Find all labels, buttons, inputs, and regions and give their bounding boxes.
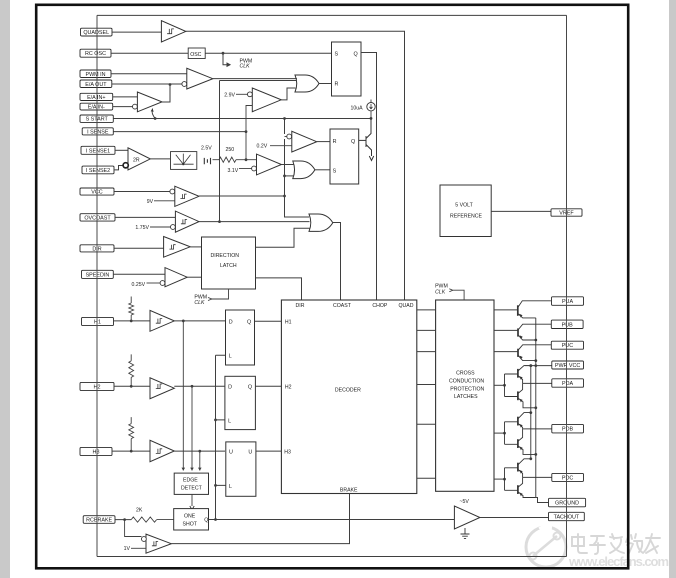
comparator U11 OVCOAST 1.75V schmitt: [135, 211, 309, 232]
wire G3 output to COAST column: [333, 223, 341, 301]
node 250 resistor: [245, 158, 248, 161]
svg-text:PWR VCC: PWR VCC: [555, 363, 581, 369]
pin PUC: [551, 341, 583, 349]
svg-text:www.elecfans.com: www.elecfans.com: [568, 554, 669, 569]
wire edge detect tap: [191, 386, 193, 470]
svg-text:LATCHES: LATCHES: [454, 394, 478, 400]
svg-text:RCBRAKE: RCBRAKE: [86, 518, 112, 524]
svg-text:REFERENCE: REFERENCE: [450, 213, 483, 219]
svg-text:E/A IN+: E/A IN+: [87, 95, 105, 101]
wire Q2 collector to PUB: [518, 324, 551, 330]
latch U14 DIRECTION LATCH: [202, 237, 256, 289]
wire QUADSEL to buffer: [112, 31, 161, 33]
wire PWM CLK tap with arrow: [223, 53, 230, 64]
wire 9V label to lower input: [154, 200, 175, 202]
svg-text:2R: 2R: [133, 158, 140, 164]
wire S START line: [113, 118, 371, 120]
buffer U21 hall input schmitt: [129, 417, 225, 471]
transistor Q7 chopper: [359, 118, 374, 160]
wire I SENSE line: [113, 131, 246, 133]
block U25 5 VOLT REFERENCE: [440, 185, 491, 237]
pin VCC: [80, 188, 114, 196]
svg-text:CLK: CLK: [435, 289, 446, 295]
watermark chinese text (vector strokes, chars drawn as shapes): [572, 534, 660, 554]
wire OSC box to latch S input: [205, 52, 331, 54]
pin I SENSE: [82, 128, 113, 136]
wire return rail to ground pin: [536, 498, 549, 503]
latch U7 current SR latch: [330, 129, 359, 184]
svg-text:I SENSE1: I SENSE1: [86, 148, 110, 154]
wire decoder to cross block rungs: [417, 310, 436, 478]
node one-shot line: [214, 518, 217, 521]
wire 3.1V label to bubble: [239, 168, 252, 170]
transistor Q2 PUB driver: [494, 324, 551, 341]
wire emitter return rail: [535, 318, 537, 498]
pin H2: [80, 382, 114, 390]
wire I SENSE branch down to 250 node: [246, 132, 257, 160]
wire U21 output to latch: [174, 450, 225, 452]
node L2: [214, 419, 217, 422]
wire edge detect tap: [182, 321, 184, 471]
svg-text:S: S: [335, 52, 339, 58]
svg-text:1.75V: 1.75V: [135, 225, 149, 231]
svg-text:ONE: ONE: [184, 514, 196, 520]
svg-text:E/A OUT: E/A OUT: [85, 82, 107, 88]
svg-text:Q: Q: [247, 320, 251, 326]
svg-text:QUAD: QUAD: [399, 303, 414, 309]
svg-text:SPEEDIN: SPEEDIN: [86, 272, 110, 278]
svg-text:PROTECTION: PROTECTION: [450, 386, 484, 392]
svg-text:CONDUCTION: CONDUCTION: [449, 379, 484, 385]
node return rail PWRVCC cross: [534, 364, 537, 367]
current source I1 10uA: [351, 100, 376, 119]
svg-text:PWM IN: PWM IN: [85, 72, 105, 78]
svg-text:~5V: ~5V: [460, 499, 470, 505]
pin RCBRAKE: [83, 516, 115, 524]
amplifier U8 current sense 2R: [123, 148, 150, 170]
wire direction latch out1 to G3: [256, 228, 310, 247]
svg-text:PUB: PUB: [562, 322, 573, 328]
wire right bus segment VREF to PUA: [566, 216, 568, 297]
buffer U19 hall input schmitt: [129, 297, 225, 471]
svg-text:3.1V: 3.1V: [228, 168, 239, 174]
pin DIR: [80, 245, 114, 253]
wire bottom rail: [97, 556, 567, 558]
wire Q6 output to PDC: [523, 476, 552, 478]
wire U16 Q to decoder: [255, 320, 282, 322]
op-amp U27 tach buffer: [454, 499, 548, 529]
comparator U24 1V brake schmitt: [124, 494, 350, 554]
wire U4 output elbow to G1: [281, 88, 295, 100]
pin VREF: [551, 209, 582, 217]
comparator U4 2.9V: [224, 88, 295, 132]
pin S START: [80, 115, 113, 123]
resistor pull-up: [129, 303, 134, 315]
svg-text:2.5V: 2.5V: [201, 146, 212, 152]
wire E/A IN- to error amp bubble: [113, 106, 133, 108]
svg-text:PUC: PUC: [562, 343, 573, 349]
wire 1.75V label to bubble: [150, 226, 171, 228]
svg-text:DIRECTION: DIRECTION: [211, 253, 240, 259]
svg-text:LATCH: LATCH: [220, 263, 237, 269]
wire S START branch down x=284.5: [285, 119, 310, 218]
pin I SENSE1: [81, 146, 115, 154]
wire OVCOAST to comparator: [115, 216, 175, 218]
svg-text:EDGE: EDGE: [183, 478, 198, 484]
pin PUB: [551, 320, 583, 328]
pin RC OSC: [80, 49, 111, 57]
wire Q1 emitter to return rail: [518, 314, 536, 318]
pin GROUND: [549, 498, 586, 507]
svg-text:D: D: [228, 385, 232, 391]
wire PWM IN to comparator: [111, 73, 187, 75]
wire U6 Q to CHOP column: [361, 53, 377, 301]
label PWM CLK into direction latch: [194, 289, 228, 306]
svg-text:0.25V: 0.25V: [132, 282, 146, 288]
wire U13 output to direction latch: [187, 276, 201, 278]
wire U12 output to direction latch: [190, 246, 201, 248]
latch U16 hall latch: [226, 310, 282, 365]
wire E/A IN+ to error amp: [113, 96, 138, 98]
wire edge detect tap: [199, 451, 201, 470]
svg-text:2K: 2K: [136, 508, 143, 514]
block U23 ONE SHOT: [174, 509, 209, 530]
or-gate G1 (3-input to R of U6): [295, 75, 319, 92]
op-amp U3 error amp: [133, 92, 163, 119]
svg-text:Q: Q: [204, 518, 208, 524]
wire Q3 emitter to return rail: [518, 355, 536, 360]
wire top rail: [97, 14, 567, 16]
wire U19 output to latch: [174, 320, 225, 322]
wire RCBRAKE branch to 1V comparator: [125, 520, 142, 537]
node OVCOAST to G1 branch: [218, 220, 221, 223]
svg-text:H1: H1: [94, 320, 101, 326]
wire RC OSC to OSC box: [111, 52, 188, 54]
resistor pull-up: [129, 361, 134, 377]
pin SPEEDIN: [82, 270, 114, 278]
wire edge detect to one shot: [191, 494, 193, 506]
svg-text:E/A IN-: E/A IN-: [88, 105, 105, 111]
svg-text:0.2V: 0.2V: [257, 144, 268, 150]
wire left pin bus: [96, 15, 98, 556]
svg-text:H3: H3: [93, 450, 100, 456]
wire soft-start clamp arrow: [152, 109, 155, 119]
ground symbol below op-amp: [461, 528, 470, 538]
node L3: [214, 484, 217, 487]
label PWM CLK (top): [240, 59, 253, 70]
svg-text:OSC: OSC: [190, 52, 201, 58]
or-gate G2 (to S of U7): [293, 161, 315, 179]
wire U18 Q to decoder: [256, 450, 282, 452]
wire left pin bus overdraw: [96, 15, 98, 556]
node Q2 emitter rail: [534, 339, 537, 342]
wire RCBRAKE to 2K resistor: [115, 519, 131, 521]
wire branch stub to G2 lower input: [285, 175, 295, 177]
wire latch enable chain: [216, 355, 226, 519]
node I SENSE branch: [245, 130, 248, 133]
svg-text:L: L: [229, 484, 232, 490]
svg-text:OVCOAST: OVCOAST: [84, 215, 111, 221]
wire Q3 collector to PUC: [518, 345, 551, 351]
block U22 EDGE DETECT: [174, 473, 208, 494]
svg-text:DIR: DIR: [296, 303, 305, 309]
buffer U1 QUADSEL schmitt: [161, 21, 185, 42]
svg-text:GROUND: GROUND: [555, 501, 579, 507]
wire direction latch out2 to DIR column: [256, 278, 302, 300]
svg-text:PDB: PDB: [562, 427, 573, 433]
wire 0.25V label to bubble: [147, 282, 161, 284]
pin H1: [82, 317, 114, 325]
resistor R4 250: [213, 147, 247, 162]
node E/A OUT junction: [169, 83, 172, 86]
svg-text:QUADSEL: QUADSEL: [83, 30, 109, 36]
wire U24 output to BRAKE input: [171, 494, 349, 544]
wire U5 output to R of U7: [317, 141, 330, 143]
pin I SENSE2: [82, 166, 114, 174]
svg-text:S: S: [333, 168, 337, 174]
transistor Q1 PUA driver: [494, 301, 551, 318]
transistor Q4 darlington pair PDA: [494, 364, 552, 408]
left gray scan strip: [0, 0, 10, 578]
wire right bus overdraw: [566, 15, 568, 556]
pin E/A OUT: [80, 80, 112, 88]
svg-text:Q: Q: [351, 139, 355, 145]
buffer U12 DIR schmitt: [164, 237, 202, 258]
svg-text:U: U: [248, 450, 252, 456]
comparator U13 SPEEDIN 0.25V: [132, 268, 202, 288]
svg-text:1V: 1V: [124, 546, 131, 552]
pin E/A IN+: [80, 93, 113, 101]
wire right bus segment PUC-PWRVCC: [566, 349, 568, 361]
node RC OSC tap: [222, 52, 225, 55]
wire U11 output to OR3: [199, 221, 310, 223]
svg-text:DECODER: DECODER: [335, 387, 361, 393]
wire E/A OUT to comparator bubble: [112, 83, 182, 85]
pin PDA: [552, 379, 584, 387]
svg-text:H1: H1: [285, 320, 292, 326]
pin PDC: [552, 473, 584, 481]
pin E/A IN-: [80, 103, 113, 110]
transistor Q6 darlington pair PDC: [494, 457, 552, 497]
svg-text:9V: 9V: [147, 199, 154, 205]
svg-text:DETECT: DETECT: [181, 486, 203, 492]
svg-text:R: R: [335, 82, 339, 88]
wire 0.2V label to lower input: [270, 145, 292, 147]
wire PWR VCC collector line: [525, 365, 552, 367]
wire right bus segment above VREF: [566, 15, 568, 209]
svg-text:PUA: PUA: [562, 299, 573, 305]
wire PWM CLK elbow into latch bottom: [212, 289, 229, 299]
svg-text:Q: Q: [354, 52, 358, 58]
node collector rail top: [529, 364, 532, 367]
wire Q5 output to PDB: [523, 428, 552, 430]
svg-text:H2: H2: [285, 385, 292, 391]
wire U27 output to TACHOUT: [480, 517, 549, 519]
wire SPEEDIN to comparator: [113, 273, 165, 275]
svg-text:CHOP: CHOP: [372, 303, 388, 309]
node return rail PDB: [534, 453, 537, 456]
svg-text:U: U: [229, 450, 233, 456]
wire U17 Q to decoder: [255, 385, 281, 387]
wire OVCOAST branch up to G1: [220, 81, 298, 222]
svg-text:10uA: 10uA: [351, 106, 364, 112]
node branch OR2 stub: [283, 175, 286, 178]
wire H2 to buffer: [114, 385, 150, 387]
wire Q2 emitter to return rail: [518, 335, 536, 340]
pin H3: [80, 447, 112, 455]
wire G1 output to R: [319, 83, 332, 85]
svg-text:250: 250: [226, 147, 235, 153]
node branch VCC line: [283, 195, 286, 198]
wire Q4 output to PDA: [523, 382, 552, 384]
wire right bus segment PDA-PDB: [566, 387, 568, 424]
label PWM CLK into cross block: [435, 284, 464, 300]
battery B1 2.5V: [201, 146, 212, 165]
wire one shot output to tach op-amp: [209, 519, 455, 521]
wire right bus segment PDC-GROUND: [566, 481, 568, 498]
wire PWM CLK elbow into cross block top: [453, 290, 464, 300]
wire sense amp output to multiplier: [150, 158, 170, 160]
wire I SENSE1 to sense amp: [115, 149, 128, 151]
svg-text:CROSS: CROSS: [456, 371, 475, 377]
svg-text:COAST: COAST: [333, 303, 352, 309]
wire right bus segment PUA-PUB: [566, 305, 568, 320]
svg-text:SHOT: SHOT: [183, 522, 198, 528]
node return rail PDA: [534, 406, 537, 409]
watermark logo circle: [526, 527, 566, 567]
buffer U20 hall input schmitt: [129, 354, 225, 470]
wire I SENSE to U4 lower input: [246, 106, 252, 132]
pin QUADSEL: [81, 28, 113, 36]
wire I SENSE2 to sense amp bubble: [114, 166, 123, 170]
wire right bus segment below TACHOUT: [566, 521, 568, 557]
wire H1 to buffer: [114, 320, 151, 322]
comparator U5 0.2V: [257, 131, 331, 152]
transistor Q3 PUC driver: [494, 345, 551, 362]
svg-text:I SENSE2: I SENSE2: [86, 168, 110, 174]
latch U18 hall latch: [226, 442, 282, 496]
wire 1V label to lower input: [131, 547, 146, 549]
wire DIR to buffer: [114, 247, 164, 249]
node S START / current source: [370, 117, 373, 120]
wire PWM comparator out to G1: [213, 78, 297, 80]
svg-text:CLK: CLK: [240, 64, 251, 70]
node branch top: [283, 117, 286, 120]
or-gate G3 coast: [309, 214, 333, 231]
wire error amp output to E/A OUT: [162, 85, 170, 103]
svg-text:PDC: PDC: [562, 475, 573, 481]
resistor R5 2K: [131, 508, 174, 523]
pin PWM IN: [80, 70, 111, 78]
svg-text:I SENSE: I SENSE: [87, 129, 109, 135]
svg-text:Q: Q: [248, 385, 252, 391]
svg-text:RC OSC: RC OSC: [85, 51, 106, 57]
wire collector rail: [530, 366, 532, 459]
wire right bus segment GROUND-TACHOUT: [566, 507, 568, 513]
wire QUADSEL buffer output to QUAD column: [186, 31, 405, 300]
svg-text:H3: H3: [284, 449, 291, 455]
wire 2.9V label to bubble: [236, 93, 248, 95]
multiplier block X1: [171, 152, 197, 170]
svg-text:PDA: PDA: [562, 381, 573, 387]
wire right bus segment PUB-PUC: [566, 329, 568, 342]
svg-text:2.9V: 2.9V: [224, 92, 235, 98]
pin PUA: [552, 297, 584, 306]
wire VCC to comparator bubble: [114, 191, 170, 193]
svg-text:5 VOLT: 5 VOLT: [455, 203, 473, 209]
wire H3 to buffer: [112, 450, 151, 452]
latch U6 PWM SR latch: [332, 42, 362, 96]
wire right bus segment PDB-PDC: [566, 433, 568, 474]
pin OVCOAST: [80, 214, 115, 222]
comparator U2 PWM: [182, 68, 213, 89]
node Q3 emitter rail: [534, 359, 537, 362]
svg-text:D: D: [229, 320, 233, 326]
wire Q1 collector to PUA: [518, 301, 551, 308]
pin PWR VCC: [552, 361, 584, 369]
node RCBRAKE junction: [123, 518, 126, 521]
wire U20 output to latch: [174, 385, 225, 387]
wire right bus segment PWRVCC-PDA: [566, 369, 568, 379]
svg-text:CLK: CLK: [194, 300, 205, 306]
decoder U15: [281, 300, 416, 494]
svg-text:R: R: [333, 139, 337, 145]
svg-text:BRAKE: BRAKE: [340, 487, 358, 493]
pin PDB: [552, 424, 584, 433]
latch U17 hall latch: [225, 376, 282, 429]
resistor pull-up: [129, 424, 134, 439]
transistor Q5 darlington pair PDB: [494, 411, 552, 454]
comparator U9 3.1V: [228, 154, 282, 175]
pin TACHOUT: [549, 512, 585, 520]
wire reference to VREF pin: [491, 210, 551, 212]
right gray scan strip: [669, 0, 676, 578]
node soft start junction: [154, 117, 157, 120]
comparator U10 VCC 9V schmitt: [147, 186, 285, 206]
block U26 CROSS CONDUCTION PROTECTION LATCHES: [436, 300, 494, 491]
wire U9 out to G2: [281, 164, 294, 166]
oscillator OSC box: [188, 48, 205, 59]
wire G2 output to S of U7: [315, 169, 330, 171]
wire U10 output to OR3 branch: [199, 195, 285, 197]
svg-text:L: L: [229, 354, 232, 360]
svg-text:L: L: [228, 418, 231, 424]
